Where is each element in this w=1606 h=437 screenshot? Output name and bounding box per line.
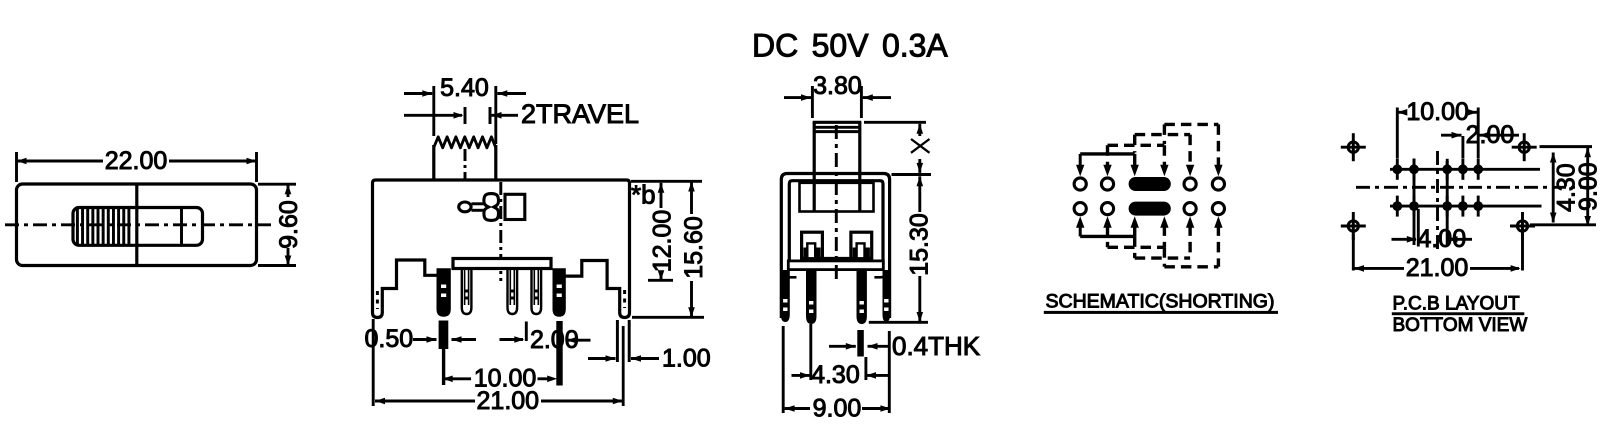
svg-text:SCHEMATIC(SHORTING): SCHEMATIC(SHORTING) [1046, 291, 1275, 313]
svg-text:3.80: 3.80 [813, 72, 862, 100]
svg-text:2TRAVEL: 2TRAVEL [521, 99, 639, 129]
svg-text:10.00: 10.00 [1406, 98, 1469, 126]
svg-text:22.00: 22.00 [105, 147, 168, 175]
svg-text:15.30: 15.30 [905, 213, 933, 276]
svg-text:BOTTOM VIEW: BOTTOM VIEW [1393, 315, 1528, 336]
svg-text:15.60: 15.60 [680, 216, 708, 279]
svg-text:0.4THK: 0.4THK [892, 331, 981, 361]
svg-text:1.00: 1.00 [662, 345, 711, 373]
svg-text:4.00: 4.00 [1417, 225, 1466, 253]
svg-text:21.00: 21.00 [477, 387, 540, 415]
svg-text:12.00: 12.00 [649, 210, 677, 273]
svg-text:9.00: 9.00 [813, 394, 862, 422]
svg-text:P.C.B LAYOUT: P.C.B LAYOUT [1393, 293, 1520, 314]
svg-text:2.00: 2.00 [1466, 121, 1515, 149]
svg-text:DC 50V 0.3A: DC 50V 0.3A [752, 28, 948, 64]
svg-text:0.50: 0.50 [365, 325, 414, 353]
svg-text:9.60: 9.60 [275, 200, 303, 249]
svg-text:21.00: 21.00 [1406, 254, 1469, 282]
svg-text:4.30: 4.30 [811, 361, 860, 389]
svg-text:*b: *b [631, 180, 656, 210]
svg-text:5.40: 5.40 [440, 74, 489, 102]
svg-text:9.00: 9.00 [1575, 162, 1603, 211]
